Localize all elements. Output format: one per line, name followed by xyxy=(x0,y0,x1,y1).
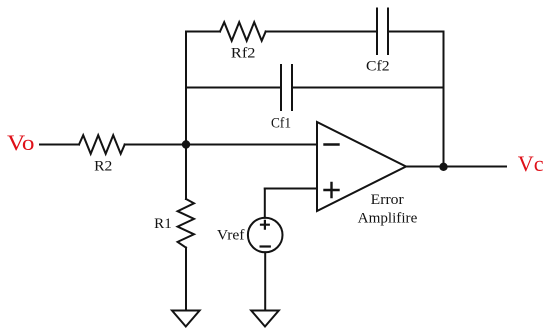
wire node A up to feedback network xyxy=(185,32,187,145)
capacitor Cf2 xyxy=(377,9,388,55)
wire node A down to R1 xyxy=(185,145,187,200)
svg-text:Cf1: Cf1 xyxy=(271,115,291,131)
resistor Rf2 xyxy=(220,22,266,41)
wire Vref bottom lead xyxy=(264,252,266,310)
wire R1 to ground xyxy=(185,248,187,311)
Vref minus symbol xyxy=(261,245,270,247)
ground (below Vref) xyxy=(251,311,279,327)
op-amp inverting pin minus symbol xyxy=(325,143,339,145)
node A junction dot xyxy=(182,140,190,148)
wire op-amp non-inverting input from Vref xyxy=(265,188,317,190)
Vref plus symbol xyxy=(261,221,269,229)
svg-text:Rf2: Rf2 xyxy=(231,46,256,62)
op-amp non-inverting pin plus symbol xyxy=(325,183,339,197)
output node junction dot xyxy=(439,163,447,171)
op-amp U1 triangle xyxy=(317,122,406,211)
svg-text:Vc: Vc xyxy=(518,151,544,176)
wire R2 to node A xyxy=(125,144,186,146)
svg-text:Amplifire: Amplifire xyxy=(358,211,418,227)
voltage source Vref circle xyxy=(248,218,283,253)
wire Cf1 to right vertical xyxy=(292,87,444,89)
resistor R1 xyxy=(178,199,194,248)
wire node A to op-amp inverting input xyxy=(186,144,317,146)
wire mid line left segment to Cf1 xyxy=(186,87,281,89)
svg-text:R1: R1 xyxy=(154,216,172,232)
wire right vertical (feedback to output) xyxy=(443,32,445,167)
svg-text:Vo: Vo xyxy=(7,130,35,155)
svg-text:Error: Error xyxy=(371,192,404,208)
wire input from Vo to R2 xyxy=(40,144,79,146)
wire op-amp output xyxy=(406,166,506,168)
capacitor Cf1 xyxy=(281,65,292,110)
wire top line to Rf2 xyxy=(186,31,220,33)
wire Cf2 to right vertical xyxy=(388,31,444,33)
wire Vref top lead xyxy=(264,189,266,218)
svg-text:R2: R2 xyxy=(94,158,112,174)
ground (below R1) xyxy=(172,311,200,327)
svg-text:Cf2: Cf2 xyxy=(366,59,390,75)
resistor R2 xyxy=(79,135,125,154)
svg-text:Vref: Vref xyxy=(217,228,245,244)
wire Rf2 to Cf2 xyxy=(266,31,377,33)
